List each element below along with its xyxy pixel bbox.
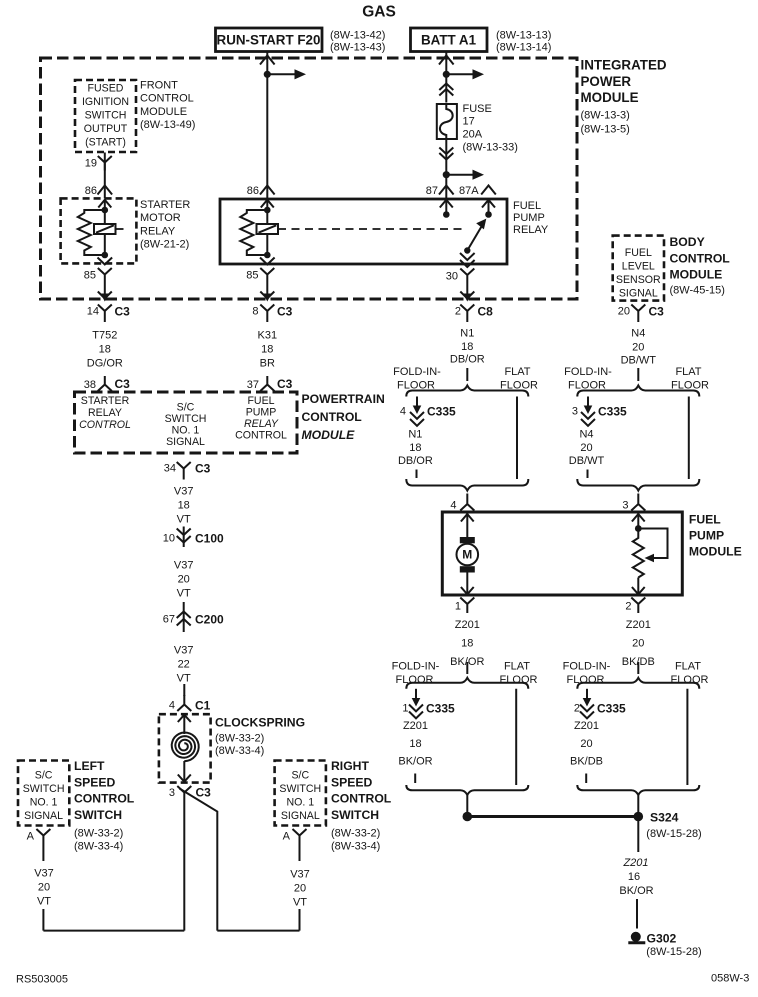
label FOLD-IN-FLOOR (Z201 left): [392, 661, 440, 687]
svg-text:N4: N4: [631, 328, 645, 340]
pin 30 fork: [446, 269, 475, 283]
svg-text:37: 37: [247, 379, 259, 391]
resistor fuel level sender: [633, 529, 644, 578]
svg-text:34: 34: [164, 463, 176, 475]
wire relay 30 to C8: [466, 283, 468, 297]
wire label V37 20 VT (left): [34, 868, 54, 908]
border arrow (pin 30 wire): [460, 292, 474, 302]
svg-text:RUN-START F20: RUN-START F20: [217, 33, 321, 48]
arrow branch right (run-start): [267, 69, 306, 79]
svg-text:(8W-13-43): (8W-13-43): [330, 42, 385, 54]
pin 87A inner arrow and node: [482, 199, 495, 217]
pin 87 chevron and label: [426, 185, 454, 197]
svg-text:CONTROL: CONTROL: [302, 410, 363, 424]
svg-text:(8W-13-42): (8W-13-42): [330, 30, 385, 42]
svg-text:FUEL: FUEL: [689, 513, 721, 527]
svg-text:FLAT: FLAT: [675, 661, 701, 673]
label S324: [646, 811, 701, 841]
svg-text:V37: V37: [174, 560, 194, 572]
wire fuse to relay pin 87: [445, 139, 447, 200]
label BODY CONTROL MODULE: [670, 235, 731, 297]
pin 4 entry arrow (motor): [461, 514, 474, 538]
svg-text:18: 18: [99, 344, 111, 356]
wire label V37 18 VT: [174, 486, 194, 526]
svg-text:67: 67: [163, 614, 175, 626]
svg-text:C100: C100: [195, 532, 224, 546]
pin 87 inner arrow and node: [440, 199, 453, 217]
node junction on run-start wire: [264, 71, 271, 78]
pin 87A chevron and label: [459, 185, 496, 197]
svg-text:(START): (START): [85, 137, 126, 149]
svg-text:M: M: [462, 548, 472, 562]
svg-text:DB/WT: DB/WT: [569, 455, 605, 467]
svg-text:VT: VT: [293, 897, 307, 909]
connector C335 pin 2 (Z201 right): [574, 689, 626, 719]
svg-text:C3: C3: [277, 377, 293, 391]
wire brace to S324 (right): [637, 795, 639, 813]
svg-text:20: 20: [618, 306, 630, 318]
svg-text:1: 1: [402, 703, 408, 715]
connector chevron at IPM border (run-start wire): [260, 56, 275, 65]
wire clockspring drop left: [183, 800, 185, 931]
svg-text:SPEED: SPEED: [331, 775, 373, 789]
label G302: [646, 932, 701, 959]
wire tick below C335 (N4): [587, 470, 589, 479]
wire right riser to RIGHT switch: [299, 843, 301, 931]
wire VT to C1 fork: [183, 684, 185, 696]
svg-text:VT: VT: [177, 673, 191, 685]
svg-text:MODULE: MODULE: [140, 106, 187, 118]
svg-text:3: 3: [572, 406, 578, 418]
connector C3 pin 38 fork: [84, 376, 130, 391]
svg-text:RELAY: RELAY: [88, 407, 122, 419]
svg-text:(8W-33-2): (8W-33-2): [215, 733, 264, 745]
svg-text:GAS: GAS: [362, 4, 396, 21]
text S/C SWITCH NO. 1 SIGNAL (right): [279, 770, 321, 823]
svg-text:RIGHT: RIGHT: [331, 759, 369, 773]
svg-text:SIGNAL: SIGNAL: [166, 436, 205, 448]
svg-text:C3: C3: [196, 786, 212, 800]
fuse box RUN-START F20: [216, 28, 323, 52]
label FUSE 17 20A: [463, 103, 518, 154]
text FUEL LEVEL SENSOR SIGNAL: [616, 247, 661, 300]
svg-text:22: 22: [178, 659, 190, 671]
label FRONT CONTROL MODULE: [140, 80, 195, 132]
svg-text:VT: VT: [177, 514, 191, 526]
svg-text:BK/OR: BK/OR: [398, 756, 432, 768]
label FLAT FLOOR (Z201 left): [500, 661, 538, 687]
brace bottom (Z201 left options): [406, 785, 528, 795]
clockspring spiral: [172, 733, 199, 762]
ground G302 symbol: [628, 932, 645, 943]
svg-text:DG/OR: DG/OR: [87, 358, 123, 370]
svg-text:20: 20: [580, 738, 592, 750]
svg-text:C3: C3: [277, 305, 293, 319]
svg-text:BK/DB: BK/DB: [570, 756, 603, 768]
connector C3 pin 37 fork: [247, 376, 293, 391]
wire label K31 18 BR: [258, 330, 278, 370]
svg-text:S/C: S/C: [291, 770, 309, 782]
svg-text:PUMP: PUMP: [513, 212, 545, 224]
svg-text:20: 20: [632, 638, 644, 650]
pin 19 fork: [85, 156, 112, 171]
svg-text:V37: V37: [174, 486, 194, 498]
label FLAT FLOOR (Z201 right): [671, 661, 709, 687]
connector C200 pin 67 chevrons: [163, 602, 224, 632]
svg-text:4: 4: [400, 406, 406, 418]
pin A fork (left switch): [27, 829, 51, 843]
wire flat-floor branch (Z201 left): [515, 689, 517, 785]
svg-text:DB/OR: DB/OR: [450, 354, 485, 366]
svg-text:K31: K31: [258, 330, 278, 342]
svg-text:18: 18: [409, 738, 421, 750]
connector chevron at IPM border (batt wire): [439, 56, 454, 65]
wire label V37 22 VT: [174, 645, 194, 685]
label STARTER MOTOR RELAY: [140, 199, 190, 251]
svg-text:BR: BR: [260, 358, 275, 370]
svg-text:FLOOR: FLOOR: [500, 674, 538, 686]
svg-text:FUEL: FUEL: [247, 395, 274, 407]
svg-text:Z201: Z201: [403, 720, 428, 732]
connector C335 pin 4 (N1): [400, 397, 456, 426]
wire tick below C335 (N1): [416, 470, 418, 479]
wire RUN-START F20 to fuel pump relay pin 86: [266, 52, 268, 199]
sender wiper arrow loop: [638, 529, 667, 563]
svg-text:(8W-15-28): (8W-15-28): [646, 828, 701, 840]
wire label N4 20 DB/WT (mid): [569, 429, 605, 468]
wire horizontal right segment: [217, 930, 299, 932]
svg-text:V37: V37: [290, 869, 310, 881]
brace bottom (Z201 right options): [577, 785, 699, 795]
wire S324 to ground label: [637, 821, 639, 852]
brace top (N1 options): [406, 386, 528, 397]
dashed coil linkage line: [278, 228, 462, 230]
svg-text:C3: C3: [115, 305, 131, 319]
pin 85 exit chevron (fuel relay): [260, 258, 275, 265]
svg-text:V37: V37: [34, 868, 54, 880]
connector C1 pin 4 fork: [169, 695, 211, 713]
svg-text:C335: C335: [597, 702, 626, 716]
svg-text:C335: C335: [426, 702, 455, 716]
svg-text:CONTROL: CONTROL: [140, 93, 194, 105]
svg-text:SWITCH: SWITCH: [165, 413, 207, 425]
module FUEL PUMP MODULE box: [442, 512, 682, 595]
svg-text:(8W-33-2): (8W-33-2): [331, 828, 380, 840]
relay K90 STARTER MOTOR RELAY dashed box: [61, 198, 137, 263]
svg-text:2: 2: [574, 703, 580, 715]
pin A fork (right switch): [283, 829, 307, 843]
connector C3 pin 34 fork: [164, 462, 211, 480]
svg-text:4: 4: [450, 500, 456, 512]
svg-text:20: 20: [294, 883, 306, 895]
svg-text:DB/OR: DB/OR: [398, 455, 433, 467]
svg-text:BODY: BODY: [670, 235, 705, 249]
label FUEL PUMP MODULE: [689, 513, 742, 559]
svg-text:(8W-13-33): (8W-13-33): [463, 142, 518, 154]
module INTEGRATED POWER MODULE dashed border: [41, 58, 578, 299]
connector C335 pin 3 (N4): [572, 397, 627, 426]
svg-text:16: 16: [628, 871, 640, 883]
fuse box BATT A1: [411, 28, 488, 52]
svg-text:CONTROL: CONTROL: [235, 430, 287, 442]
svg-text:POWERTRAIN: POWERTRAIN: [302, 392, 385, 406]
svg-text:4: 4: [169, 700, 175, 712]
wire label T752 18 DG/OR: [87, 330, 123, 370]
svg-text:RS503005: RS503005: [16, 974, 68, 986]
svg-text:(8W-13-5): (8W-13-5): [581, 124, 630, 136]
switch LEFT SPEED CONTROL SWITCH dashed box: [18, 761, 69, 826]
wire label V37 20 VT: [174, 560, 194, 600]
text FUEL PUMP RELAY CONTROL: [235, 395, 287, 442]
text S/C SWITCH NO. 1 SIGNAL: [165, 402, 207, 449]
text S/C SWITCH NO. 1 SIGNAL (left): [23, 770, 65, 823]
svg-text:C335: C335: [598, 405, 627, 419]
svg-text:N1: N1: [460, 328, 474, 340]
svg-text:19: 19: [85, 158, 97, 170]
svg-text:PUMP: PUMP: [246, 407, 277, 419]
label FOLD-IN-FLOOR (N1): [393, 366, 441, 392]
node sender top junction: [635, 525, 642, 532]
svg-text:FOLD-IN-: FOLD-IN-: [563, 661, 611, 673]
svg-text:C3: C3: [115, 377, 131, 391]
wire tick above brace (Z201 right): [637, 662, 639, 674]
brace bottom (N1 options): [406, 479, 528, 491]
svg-text:BATT A1: BATT A1: [421, 33, 477, 48]
svg-text:(8W-21-2): (8W-21-2): [140, 239, 189, 251]
svg-text:RELAY: RELAY: [140, 225, 176, 237]
arrow branch right (fuse output): [446, 170, 484, 180]
pin 30 exit chevrons: [460, 253, 475, 267]
switch RIGHT SPEED CONTROL SWITCH dashed box: [275, 761, 326, 826]
svg-text:VT: VT: [177, 588, 191, 600]
svg-text:2: 2: [455, 306, 461, 318]
text STARTER RELAY CONTROL: [79, 395, 131, 431]
label FOLD-IN-FLOOR (Z201 right): [563, 661, 611, 687]
wire fuel relay 85 to C3: [266, 282, 268, 296]
wire tick below C335 (Z201 left): [414, 774, 416, 784]
wire tick below C335 (Z201 right): [585, 774, 587, 784]
svg-text:(8W-33-4): (8W-33-4): [215, 745, 264, 757]
wire starter 85 to C3: [104, 282, 106, 296]
wire brace to S324 (left): [466, 795, 468, 813]
svg-text:A: A: [27, 831, 35, 843]
svg-text:058W-3: 058W-3: [711, 973, 749, 985]
clockspring bottom exit arrow: [178, 761, 191, 782]
fuel pump relay coil assembly: [240, 199, 278, 258]
svg-text:FOLD-IN-: FOLD-IN-: [393, 366, 441, 378]
pin 86 chevron (fuel pump relay): [247, 185, 275, 197]
svg-text:(8W-33-4): (8W-33-4): [74, 841, 123, 853]
svg-text:FLOOR: FLOOR: [567, 674, 605, 686]
wire label to ground: [636, 899, 638, 929]
svg-text:Z201: Z201: [626, 619, 651, 631]
svg-text:20: 20: [632, 342, 644, 354]
wire label N1 18 DB/OR (mid): [398, 429, 433, 468]
wire label Z201 16 BK/OR: [619, 857, 653, 897]
svg-text:CONTROL: CONTROL: [670, 251, 731, 265]
svg-text:G302: G302: [647, 932, 677, 946]
svg-text:(8W-33-2): (8W-33-2): [74, 828, 123, 840]
svg-text:STARTER: STARTER: [140, 199, 190, 211]
border arrow (fuel 85 wire): [260, 292, 274, 302]
svg-text:RELAY: RELAY: [244, 418, 279, 430]
wire left riser to LEFT switch: [42, 843, 44, 931]
border arrow (starter 85 wire): [98, 292, 112, 302]
svg-text:N1: N1: [408, 429, 422, 441]
svg-text:C335: C335: [427, 405, 456, 419]
wire tick above brace (Z201 left): [466, 662, 468, 674]
svg-text:20: 20: [38, 882, 50, 894]
pin 4 fork into fuel pump module: [450, 494, 474, 512]
starter relay coil assembly: [78, 199, 126, 258]
connector C3 pin 14 fork: [87, 305, 130, 323]
svg-text:Z201: Z201: [574, 720, 599, 732]
wire flat-floor branch (N4): [688, 397, 690, 480]
svg-text:C200: C200: [195, 613, 224, 627]
wire pin19 to starter relay pin 86: [104, 153, 106, 199]
svg-text:(8W-33-4): (8W-33-4): [331, 841, 380, 853]
svg-text:(8W-13-3): (8W-13-3): [581, 110, 630, 122]
text fused ignition switch output (start): [82, 83, 129, 149]
svg-text:2: 2: [625, 601, 631, 613]
svg-text:FUEL: FUEL: [513, 200, 541, 212]
svg-text:DB/WT: DB/WT: [621, 355, 657, 367]
splice S324 junction: [463, 812, 644, 822]
connector C100 pin 10 chevrons: [163, 527, 224, 548]
svg-text:FOLD-IN-: FOLD-IN-: [392, 661, 440, 673]
label FUEL PUMP RELAY: [513, 200, 549, 236]
svg-text:18: 18: [461, 638, 473, 650]
svg-text:FLAT: FLAT: [504, 661, 530, 673]
svg-text:30: 30: [446, 271, 458, 283]
wire diagonal to right drop: [180, 789, 218, 931]
svg-text:SIGNAL: SIGNAL: [281, 810, 320, 822]
node junction below fuse: [443, 171, 450, 178]
brace top (Z201 right options): [577, 678, 699, 689]
svg-text:20A: 20A: [463, 129, 483, 141]
svg-text:SWITCH: SWITCH: [23, 783, 65, 795]
label CLOCKSPRING: [215, 716, 305, 757]
svg-text:FUSED: FUSED: [88, 83, 124, 95]
svg-text:18: 18: [261, 344, 273, 356]
svg-text:SWITCH: SWITCH: [331, 808, 379, 822]
module CLOCKSPRING dashed box: [159, 714, 211, 782]
node FUSED IGNITION SWITCH OUTPUT (START) dashed box: [75, 80, 136, 152]
switch lever (relay contact): [464, 219, 486, 254]
wire label V37 20 VT (right): [290, 869, 310, 909]
svg-text:FLOOR: FLOOR: [396, 674, 434, 686]
connector C335 pin 1 (Z201 left): [402, 689, 455, 719]
pin 85 fork (fuel relay): [246, 268, 274, 282]
svg-text:FLAT: FLAT: [675, 366, 701, 378]
svg-text:C1: C1: [195, 699, 211, 713]
svg-text:3: 3: [622, 500, 628, 512]
svg-text:87: 87: [426, 185, 438, 197]
pin 1 fork (fuel pump module): [455, 598, 474, 614]
wire flat-floor branch (Z201 right): [686, 689, 688, 785]
motor exit wire and arrow: [461, 573, 474, 595]
svg-text:S324: S324: [650, 811, 679, 825]
pin 2 fork (fuel pump module): [625, 598, 645, 614]
svg-text:V37: V37: [174, 645, 194, 657]
svg-text:FUEL: FUEL: [625, 247, 652, 259]
wire flat-floor branch (N1): [516, 397, 518, 480]
svg-text:OUTPUT: OUTPUT: [84, 123, 128, 135]
clockspring top entry arrow: [178, 715, 191, 735]
svg-text:SIGNAL: SIGNAL: [619, 288, 658, 300]
svg-text:LEFT: LEFT: [74, 759, 105, 773]
relay FUEL PUMP RELAY box: [220, 199, 507, 264]
svg-text:FLAT: FLAT: [504, 366, 530, 378]
pin 85 fork (starter): [84, 268, 112, 282]
svg-text:MODULE: MODULE: [689, 545, 742, 559]
svg-text:1: 1: [455, 601, 461, 613]
svg-text:VT: VT: [37, 896, 51, 908]
svg-text:NO. 1: NO. 1: [172, 425, 200, 437]
svg-text:CONTROL: CONTROL: [79, 419, 131, 431]
label RIGHT SPEED CONTROL SWITCH: [331, 759, 392, 853]
svg-text:T752: T752: [92, 330, 117, 342]
svg-text:18: 18: [178, 500, 190, 512]
label FLAT FLOOR (N1): [500, 366, 538, 392]
svg-text:S/C: S/C: [177, 402, 195, 414]
svg-text:85: 85: [84, 270, 96, 282]
svg-text:RELAY: RELAY: [513, 224, 549, 236]
svg-text:87A: 87A: [459, 185, 479, 197]
svg-text:FUSE: FUSE: [463, 103, 492, 115]
sender exit wire and arrow: [632, 578, 645, 595]
svg-text:8: 8: [252, 306, 258, 318]
svg-text:14: 14: [87, 306, 99, 318]
module BODY CONTROL MODULE dashed box: [613, 236, 664, 301]
svg-text:17: 17: [463, 116, 475, 128]
wire label N4 20 DB/WT (top): [621, 328, 657, 367]
svg-text:(8W-45-15): (8W-45-15): [670, 285, 725, 297]
wire tick above left brace: [466, 368, 468, 381]
svg-text:85: 85: [246, 270, 258, 282]
svg-text:A: A: [283, 831, 291, 843]
brace top (Z201 left options): [406, 678, 528, 689]
wire BATT A1 to fuse: [445, 52, 447, 103]
svg-text:MOTOR: MOTOR: [140, 212, 181, 224]
svg-text:20: 20: [580, 442, 592, 454]
svg-text:CLOCKSPRING: CLOCKSPRING: [215, 716, 305, 730]
label POWERTRAIN CONTROL MODULE: [302, 392, 385, 442]
fuse terminal chevrons above fuse: [439, 84, 453, 96]
pin 3 fork into fuel pump module: [622, 494, 645, 512]
svg-text:C8: C8: [478, 305, 494, 319]
svg-text:FLOOR: FLOOR: [671, 674, 709, 686]
connector C3 pin 3 fork (clockspring): [169, 786, 211, 801]
svg-text:NO. 1: NO. 1: [286, 797, 314, 809]
label LEFT SPEED CONTROL SWITCH: [74, 759, 135, 853]
svg-text:10: 10: [163, 533, 175, 545]
label INTEGRATED POWER MODULE: [581, 58, 667, 136]
svg-text:(8W-13-49): (8W-13-49): [140, 119, 195, 131]
wire label Z201 20 BK/DB (right): [622, 619, 655, 668]
svg-text:(8W-15-28): (8W-15-28): [646, 946, 701, 958]
svg-text:BK/OR: BK/OR: [619, 885, 653, 897]
wire tick above right brace: [637, 368, 639, 381]
svg-text:SWITCH: SWITCH: [85, 110, 127, 122]
svg-text:CONTROL: CONTROL: [74, 792, 135, 806]
svg-text:INTEGRATED: INTEGRATED: [581, 58, 667, 73]
fuse F17 body: [437, 104, 457, 139]
svg-text:18: 18: [409, 442, 421, 454]
svg-text:86: 86: [85, 185, 97, 197]
connector C8 pin 2 fork: [455, 305, 493, 323]
svg-text:POWER: POWER: [581, 74, 632, 89]
